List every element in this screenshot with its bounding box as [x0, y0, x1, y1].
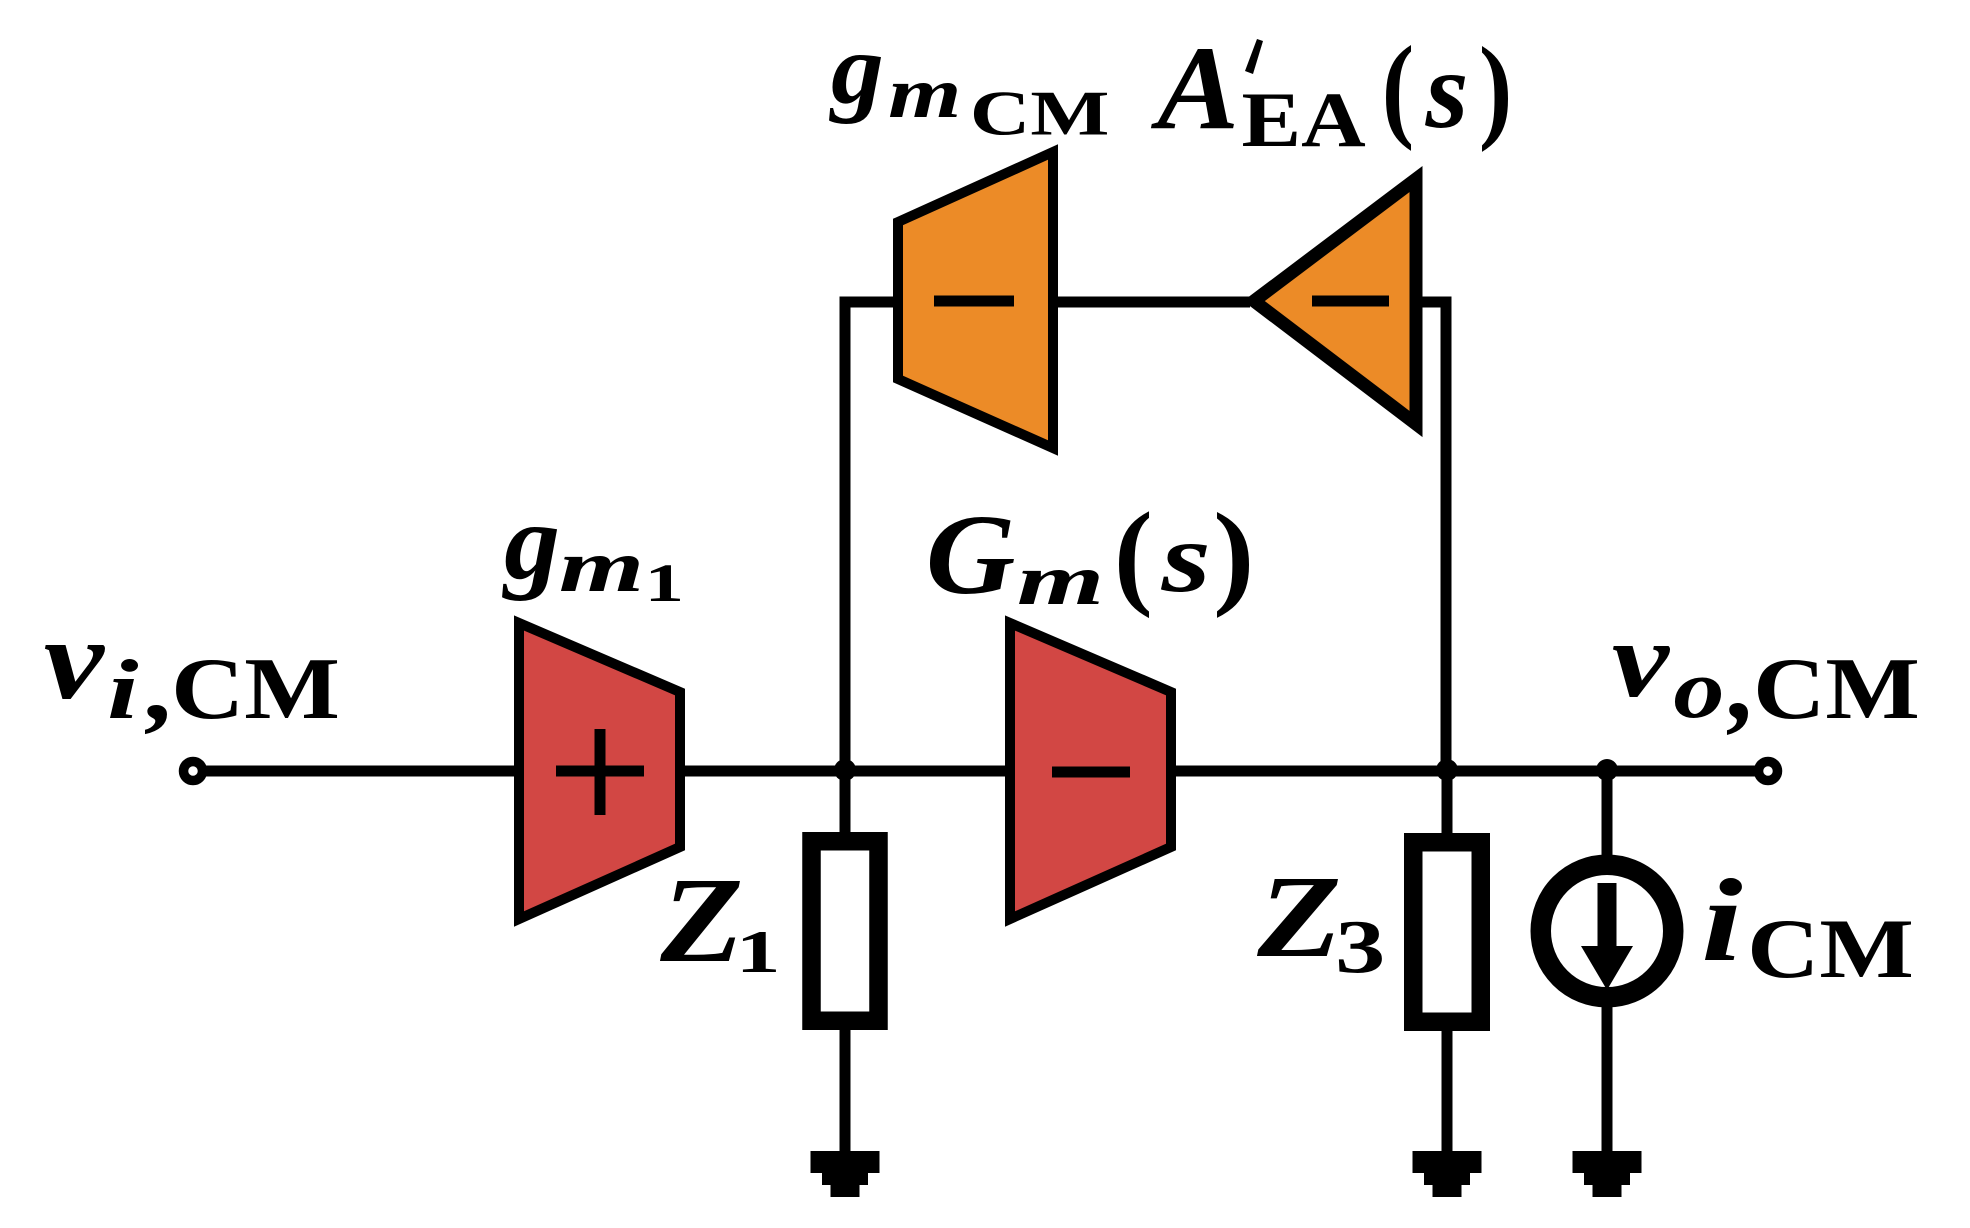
terminal output port circle [1759, 762, 1778, 781]
svg-text:o: o [1673, 643, 1724, 735]
node B junction dot [1436, 759, 1458, 781]
svg-text:s: s [1160, 502, 1210, 613]
value label gm1 [502, 483, 684, 613]
ground below current source [1573, 1151, 1642, 1197]
op-amp Gm(s) trapezoid [1010, 623, 1171, 919]
svg-text:): ) [1213, 490, 1255, 619]
op-amp gm1 trapezoid [519, 623, 680, 919]
value label A'EA(s) [1150, 21, 1512, 164]
impedance Z1 box [812, 841, 879, 1021]
svg-text:(: ( [1114, 488, 1153, 619]
svg-text:G: G [926, 491, 1016, 618]
svg-text:CM: CM [1753, 640, 1920, 737]
current source iCM circle [1541, 865, 1674, 998]
value label Z3 [1256, 852, 1385, 989]
value label Z1 [659, 853, 780, 988]
svg-text:v: v [44, 595, 106, 723]
plus sign inside gm1 [556, 729, 644, 815]
terminal input port circle [184, 762, 203, 781]
minus sign inside gmCM [934, 296, 1014, 307]
wire node A up to gmCM input with corner stub [845, 302, 893, 771]
svg-text:1: 1 [645, 552, 684, 613]
svg-text:A: A [1150, 21, 1239, 154]
svg-text:Z: Z [659, 853, 743, 988]
svg-text:CM: CM [171, 640, 340, 737]
node label vi,CM [44, 595, 340, 740]
value label iCM [1701, 855, 1914, 996]
node label vo,CM [1612, 599, 1920, 742]
value label Gm(s) [926, 488, 1255, 620]
value label gmCM [829, 13, 1109, 149]
node output junction dot [1596, 759, 1618, 781]
op-amp AEA triangle (pointing left) [1254, 179, 1416, 424]
svg-text:): ) [1479, 24, 1513, 153]
svg-text:s: s [1425, 29, 1469, 151]
current source arrow [1581, 883, 1633, 990]
wire AEA input stub and feedback vertical down to node B [1421, 302, 1446, 771]
svg-text:CM: CM [1747, 902, 1914, 996]
wire output node down through current source to ground [1602, 771, 1613, 1155]
wire main horizontal from input terminal to output terminal [205, 766, 1757, 777]
wire gmCM output to AEA tip [1054, 297, 1250, 308]
minus sign inside AEA [1312, 296, 1389, 307]
svg-text:i: i [1701, 855, 1743, 986]
svg-text:g: g [829, 13, 884, 125]
svg-text:EA: EA [1242, 77, 1366, 164]
impedance Z3 box [1413, 842, 1481, 1022]
svg-text:m: m [1017, 540, 1104, 620]
svg-text:g: g [502, 483, 560, 602]
svg-text:Z: Z [1256, 852, 1341, 982]
svg-text:CM: CM [970, 77, 1110, 148]
svg-text:1: 1 [736, 919, 781, 986]
minus sign inside Gm(s) [1052, 767, 1130, 778]
ground below Z1 [811, 1151, 880, 1197]
svg-text:m: m [888, 53, 961, 133]
ground below Z3 [1413, 1151, 1482, 1197]
svg-text:(: ( [1382, 23, 1414, 152]
wire node A down through Z1 to ground [840, 771, 851, 1155]
svg-text:m: m [559, 526, 644, 608]
node A junction dot [834, 759, 856, 781]
op-amp gmCM trapezoid (mirrored) [898, 152, 1053, 448]
svg-text:3: 3 [1335, 905, 1385, 989]
svg-text:v: v [1612, 599, 1671, 720]
svg-text:i: i [107, 643, 139, 737]
wire node B down through Z3 to ground [1442, 771, 1453, 1155]
